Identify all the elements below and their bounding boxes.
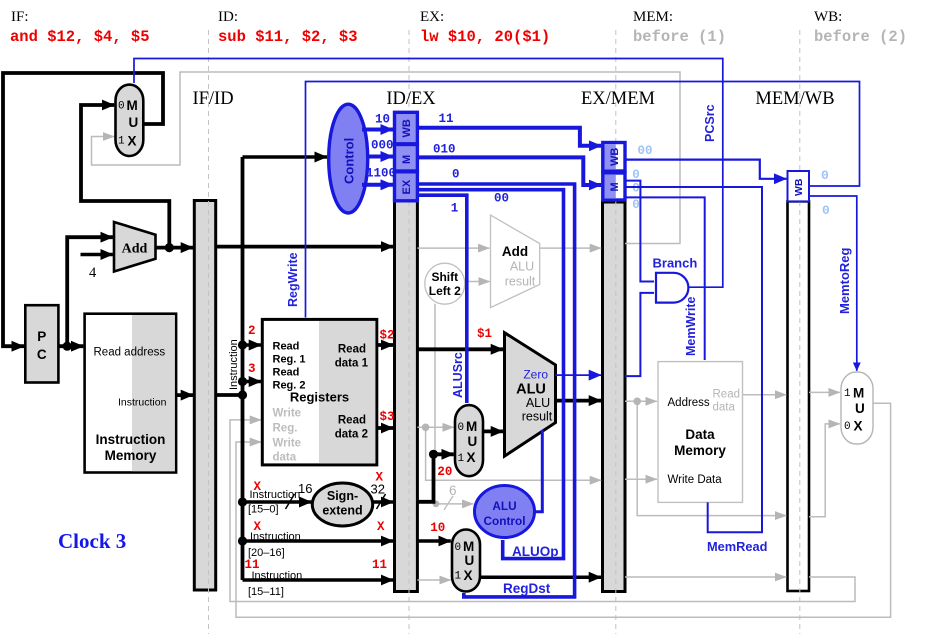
svg-text:Read: Read [273,367,300,379]
svg-text:[15–0]: [15–0] [248,504,279,516]
svg-text:X: X [464,568,473,583]
pipeline register ID/EX bar [395,201,418,592]
ghost address wire EX/MEM to data memory [625,400,657,402]
svg-text:WB: WB [793,178,805,196]
ghost branch target wire Add result to EX/MEM [540,247,602,249]
svg-text:MEM/WB: MEM/WB [755,89,834,109]
ghost read data 2 wire to ALUSrc mux input 0 [417,426,453,428]
wire Zero flag to EX/MEM [556,374,602,376]
ALU main [505,333,556,456]
junction bus read reg2 [238,377,247,386]
svg-text:Clock 3: Clock 3 [58,529,126,553]
wire Add output to IF/ID [156,246,194,250]
svg-text:EX:: EX: [420,9,444,25]
svg-text:ALU: ALU [510,260,534,274]
svg-text:M: M [853,386,864,401]
svg-text:Read: Read [338,415,366,427]
svg-text:10: 10 [375,113,390,127]
EX/MEM WB section [603,143,625,172]
svg-text:Instruction: Instruction [96,432,166,447]
svg-text:MemtoReg: MemtoReg [837,247,852,314]
svg-text:ALU: ALU [526,396,550,410]
svg-text:Instruction: Instruction [250,531,301,543]
svg-text:11: 11 [439,112,454,126]
svg-text:X: X [128,134,137,149]
svg-text:6: 6 [449,483,457,498]
svg-text:00: 00 [638,144,653,158]
wire ALUSrc from ID/EX EX [417,195,466,403]
svg-text:P: P [37,329,46,344]
svg-text:11: 11 [372,558,387,572]
wire instruction memory output to IF/ID [176,393,193,397]
svg-text:2: 2 [248,324,256,338]
ghost instruction 15-11 wire to RegDst mux input 1 [417,579,450,581]
svg-text:Control: Control [484,514,526,528]
svg-text:X: X [376,471,384,485]
ID/EX EX section [395,172,418,201]
junction bus 20-16 [238,536,247,545]
junction bus read reg1 [238,340,247,349]
wire ALU result to EX/MEM [556,399,602,403]
svg-text:Control: Control [342,138,357,184]
wire PC+4 IF/ID to ID/EX [216,245,394,249]
svg-text:[20–16]: [20–16] [248,547,285,559]
svg-text:M: M [401,155,413,164]
wire PC mux output loop to PC [3,73,163,346]
junction Add output [165,243,174,252]
ghost ALU result wire MEM/WB to WB mux input 0 [809,424,840,517]
svg-text:$3: $3 [380,410,395,424]
wire RegDst select from ID/EX EX [417,184,574,597]
junction ghost address [633,398,641,406]
svg-text:Data: Data [685,427,715,442]
svg-text:RegDst: RegDst [503,581,551,596]
stage boundary dashed line EX|MEM [615,30,617,634]
EX/MEM M section [603,173,625,200]
wire read register 1 [243,343,262,347]
svg-text:1: 1 [455,571,462,583]
svg-text:0: 0 [822,203,830,218]
svg-text:Instruction: Instruction [228,339,240,390]
ghost read data wire MEM/WB to WB mux input 1 [809,391,840,393]
wire sign extend output to ID/EX [373,500,394,504]
wire ID/EX WB to EX/MEM WB [417,128,601,146]
wire instruction 20-16 to ID/EX [243,539,394,543]
svg-text:MemWrite: MemWrite [684,296,698,356]
svg-text:0: 0 [458,422,465,434]
wire RegDst mux output to EX/MEM [480,575,601,579]
svg-text:WB: WB [609,148,621,166]
svg-text:Instruction: Instruction [118,397,167,409]
stage boundary dashed line ID|EX [408,30,410,634]
svg-text:X: X [377,520,385,534]
ghost write data wire EX/MEM to data memory [625,478,657,480]
svg-text:Sign-: Sign- [327,489,358,503]
svg-text:PCSrc: PCSrc [703,104,717,142]
wire instruction IF/ID to bus [216,393,243,397]
wire MemtoReg select to WB mux [809,196,857,371]
svg-text:Memory: Memory [674,443,726,458]
svg-text:RegWrite: RegWrite [286,252,300,307]
junction bus imm [238,497,247,506]
svg-text:1: 1 [118,136,125,148]
svg-text:0: 0 [632,198,640,212]
Add unit PC+4 [114,222,156,272]
svg-text:1: 1 [844,388,851,400]
ghost write data wire to EX/MEM [426,427,602,480]
ghost Add ALU branch adder [491,215,540,308]
svg-text:20: 20 [437,465,452,479]
svg-text:M: M [127,98,138,113]
wire read data 2 to ID/EX [377,426,394,430]
ghost write-back data wire WB mux to registers write data [236,403,891,617]
shift left 2 unit [425,263,465,304]
registers file [262,319,377,465]
ghost PCSrc loop wire (before-1) to PC mux input 1 [92,72,681,244]
wire MemWrite signal [625,197,705,360]
svg-text:Write: Write [273,438,302,450]
RegWrite loop wire MEM/WB to registers [306,82,860,318]
control output wire M [368,155,393,159]
svg-text:000: 000 [371,139,394,153]
ID/EX M section [395,145,418,172]
wire ALU control to ALU [534,430,542,512]
wire PC value up to Add input 1 [67,237,113,346]
wire constant 4 to Add input 2 [81,253,113,257]
svg-text:X: X [854,419,863,434]
svg-text:0: 0 [821,168,829,183]
svg-text:U: U [129,115,139,130]
svg-text:ALUOp: ALUOp [512,544,559,559]
blue PCSrc loop wire AND gate to PC mux select [134,59,723,288]
svg-text:data: data [713,402,736,414]
wire EX/MEM WB to MEM/WB WB [625,160,786,179]
svg-text:MEM:: MEM: [633,9,673,25]
ALU control unit [475,486,535,538]
svg-text:Instruction: Instruction [252,570,303,582]
svg-text:[15–11]: [15–11] [248,586,284,598]
ALUSrc mux [455,405,483,476]
ghost read data wire data memory to MEM/WB [743,394,787,396]
svg-text:ID:: ID: [218,9,238,25]
instruction bus vertical [241,157,245,580]
svg-text:before (1): before (1) [633,28,726,46]
wire ALUOp from ID/EX EX [417,190,563,559]
svg-text:10: 10 [430,521,445,535]
svg-text:0: 0 [455,542,462,554]
PC register [25,305,58,382]
svg-text:010: 010 [433,143,456,157]
wire instruction 15-0 to sign extend [243,500,312,504]
svg-text:data: data [273,452,297,464]
svg-text:0: 0 [844,421,851,433]
svg-text:Shift: Shift [431,270,458,284]
svg-text:WB:: WB: [814,9,842,25]
svg-text:U: U [855,401,865,416]
wire read data 1 to ID/EX [377,343,394,347]
bus slash 32 [377,494,386,509]
svg-text:Reg. 1: Reg. 1 [273,354,306,366]
svg-text:0: 0 [452,168,460,182]
svg-text:$2: $2 [380,328,395,342]
junction ghost ALU control tap [433,501,440,508]
sign extend unit [312,483,372,526]
PC source mux M1 [116,85,144,156]
svg-text:Write Data: Write Data [668,474,723,486]
wire MemRead signal [625,187,762,532]
ghost PC+4 wire ID/EX to Add branch [417,247,489,249]
svg-text:1100: 1100 [366,167,396,181]
svg-text:IF:: IF: [11,9,29,25]
svg-text:U: U [465,553,475,568]
svg-text:0: 0 [632,181,640,195]
svg-text:M: M [466,419,477,434]
svg-text:IF/ID: IF/ID [192,89,233,109]
svg-text:Instruction: Instruction [250,489,301,501]
svg-text:and $12, $4, $5: and $12, $4, $5 [10,28,150,46]
svg-text:result: result [505,275,536,289]
svg-text:Read: Read [273,341,300,353]
svg-text:data 2: data 2 [335,429,368,441]
junction bus instruction in [238,390,247,399]
ghost shift-left-2 output wire [464,281,490,283]
svg-text:Registers: Registers [290,390,349,405]
svg-text:EX/MEM: EX/MEM [581,89,655,109]
svg-text:$1: $1 [477,327,492,341]
wire read data 1 ID/EX to ALU input 1 [417,347,503,351]
WB write-back mux [841,372,873,444]
svg-text:3: 3 [248,362,256,376]
MEM/WB WB section [788,171,810,201]
svg-text:Zero: Zero [523,368,548,382]
ghost shift-left-2 input wire [434,304,436,453]
stage boundary dashed line IF|ID [208,30,210,634]
control unit ellipse [329,104,368,213]
svg-text:Read: Read [338,344,366,356]
bus slash 16 [286,494,295,509]
svg-text:1: 1 [458,453,465,465]
svg-text:data 1: data 1 [335,358,369,370]
svg-text:4: 4 [89,265,97,281]
svg-text:lw $10, 20($1): lw $10, 20($1) [420,28,550,46]
junction ghost read data 2 [422,424,430,432]
wire Branch signal to AND gate [625,181,654,282]
ghost instruction 6 bits wire to ALU control [436,503,473,505]
svg-text:Write: Write [273,408,302,420]
svg-text:EX: EX [401,179,413,194]
wire Zero flag EX/MEM to AND gate [625,293,654,376]
data memory [658,362,743,503]
ID/EX WB section [395,112,418,144]
RegDst mux [452,530,480,592]
svg-text:Memory: Memory [105,448,157,463]
svg-text:MemRead: MemRead [707,539,767,554]
pipeline register IF/ID bar [194,201,215,591]
bus slash 6 bits [444,496,453,510]
svg-text:1: 1 [451,202,459,216]
junction immediate shift tap [429,450,438,459]
stage boundary dashed line MEM|WB [799,30,801,634]
svg-text:X: X [467,450,476,465]
instruction memory [85,314,177,473]
wire immediate ID/EX to ALUSrc mux input 1 [417,454,453,502]
ghost write register number wire MEM/WB to registers write reg [230,420,855,602]
svg-text:Read address: Read address [94,347,166,359]
svg-text:C: C [37,347,47,362]
wire read register 2 [243,380,262,384]
svg-text:Left 2: Left 2 [429,284,461,298]
ghost ALU result bypass wire to MEM/WB [637,401,786,515]
svg-text:WB: WB [401,119,413,137]
svg-text:U: U [468,434,478,449]
svg-text:ALUSrc: ALUSrc [451,352,465,398]
AND gate branch [656,273,688,303]
ghost write register number wire EX/MEM to MEM/WB [625,576,786,578]
junction PC output [63,342,72,351]
svg-text:Reg.: Reg. [273,423,298,435]
pipeline register EX/MEM bar [603,202,626,592]
wire instruction 20-16 ID/EX to RegDst mux input 0 [417,539,450,543]
svg-text:Add: Add [122,242,148,257]
control output wire WB [362,128,393,132]
svg-text:sub $11, $2, $3: sub $11, $2, $3 [218,28,358,46]
wire ID/EX M to EX/MEM M [417,157,601,185]
wire ALUSrc mux output to ALU input 2 [483,429,503,433]
svg-text:Add: Add [502,244,528,259]
wire PC to instruction memory read address [58,344,83,348]
wire instruction to control [243,155,328,159]
svg-text:ID/EX: ID/EX [386,89,436,109]
svg-text:M: M [463,539,474,554]
svg-text:ALU: ALU [492,499,516,513]
svg-text:0: 0 [118,101,125,113]
svg-text:result: result [522,410,553,424]
svg-text:Address: Address [668,397,710,409]
svg-text:Read: Read [713,389,741,401]
wire PC+4 back to PC mux input 0 [81,105,169,246]
svg-text:before (2): before (2) [814,28,907,46]
wire instruction 15-11 to ID/EX [243,578,394,582]
control output wire EX [362,183,393,187]
pipeline register MEM/WB bar [788,201,810,591]
svg-text:Branch: Branch [653,256,698,271]
svg-text:00: 00 [494,192,509,206]
svg-text:M: M [609,182,621,191]
svg-text:extend: extend [322,504,362,518]
